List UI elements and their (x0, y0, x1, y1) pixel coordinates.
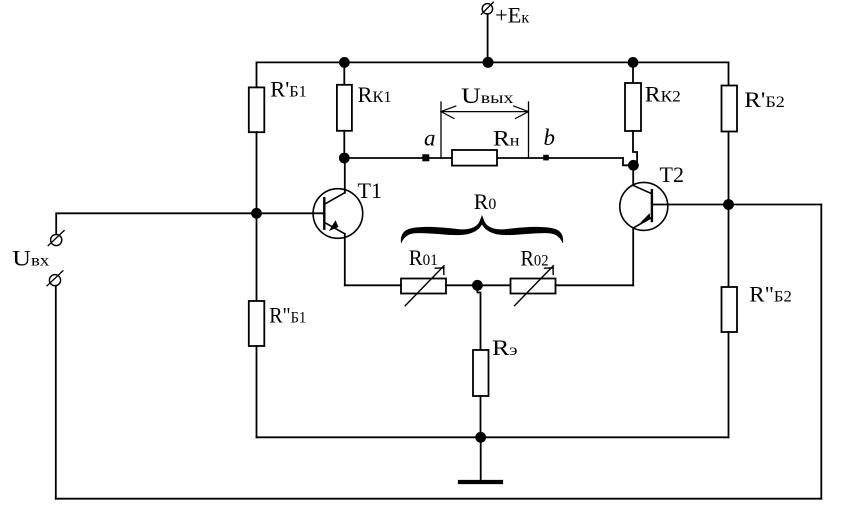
wire RK1 column top (343, 62, 345, 84)
label RE (492, 335, 518, 360)
svg-text:a: a (424, 126, 436, 151)
wire T1 collector (344, 158, 346, 193)
wire T2 emitter down (632, 228, 634, 285)
transistor T2 (620, 182, 668, 230)
label RK2 (645, 82, 681, 107)
label RN (493, 125, 520, 150)
terminal Uvx upper (48, 231, 64, 246)
node RK2 top (628, 57, 639, 68)
wire T1 base (257, 212, 325, 214)
resistor R'B2 (722, 86, 738, 132)
wire R01 to R02 (446, 284, 511, 286)
node T2 collector (628, 160, 639, 171)
wire R'B2 to base node (728, 132, 730, 205)
arrow Uvyh (441, 106, 529, 119)
resistor R'B1 (249, 87, 264, 132)
arrow R02 (515, 266, 554, 306)
wire top rail (257, 61, 729, 63)
brace R0 (401, 215, 563, 244)
node emitter center (472, 280, 483, 291)
terminal Uvx lower (47, 271, 63, 286)
wire to ground (480, 437, 482, 480)
wire T1 emitter down (344, 234, 346, 285)
arrow R01 (405, 266, 444, 306)
label a (424, 126, 436, 151)
wire upper terminal to base line (56, 213, 256, 234)
resistor RN (452, 150, 497, 166)
wire left column upper (256, 62, 258, 87)
terminal +Ek (481, 2, 493, 14)
ground (460, 480, 501, 484)
resistor RK1 (337, 85, 352, 131)
node RK1 bottom (339, 153, 350, 164)
label R0 (474, 189, 497, 214)
label T2 (660, 162, 684, 187)
svg-text:T2: T2 (660, 162, 684, 187)
node a tick (422, 154, 429, 161)
label R''B2 (749, 282, 792, 307)
wire bottom return (56, 498, 822, 500)
label Uvyh (461, 83, 514, 108)
wire bottom rail (257, 436, 729, 438)
wire left column middle (256, 132, 258, 301)
wire base node to right edge (729, 204, 822, 206)
wire load line right (623, 158, 629, 165)
node b tick (543, 155, 549, 161)
label Uvx (12, 245, 49, 270)
resistor RK2 (625, 83, 641, 131)
wire R''B2 column upper (728, 205, 730, 288)
node T1 base (251, 208, 262, 219)
resistor R01 (401, 279, 446, 294)
resistor R02 (511, 279, 556, 294)
wire RE to bottom rail (480, 396, 482, 437)
transistor T1 (313, 189, 363, 239)
label R02 (521, 245, 549, 270)
label +Ek (495, 3, 529, 28)
wire RK2 column top (632, 62, 634, 83)
wire Ek terminal to top rail (487, 14, 489, 62)
wire emitter rail left (345, 284, 401, 286)
wire RK1 to node (343, 131, 345, 158)
wire T2 base (652, 204, 729, 206)
label R''B1 (269, 303, 306, 328)
wire RK2 to node with jog (633, 131, 637, 165)
node ground (475, 432, 486, 443)
wire center node to RE with jog (477, 285, 480, 350)
wire R''B2 column lower (728, 332, 730, 437)
label R01 (409, 245, 438, 270)
label RK1 (358, 82, 392, 107)
wire R02 to T2 emitter (556, 284, 634, 286)
node RK1 top (339, 57, 350, 68)
bracket a (440, 102, 442, 158)
resistor RE (473, 350, 489, 396)
label T1 (358, 178, 382, 203)
wire T2 collector (632, 165, 634, 185)
svg-text:T1: T1 (358, 178, 382, 203)
wire right edge down (820, 205, 822, 499)
label R'B1 (270, 77, 307, 102)
wire lower terminal down (55, 286, 57, 499)
node T2 base (723, 199, 734, 210)
svg-text:b: b (544, 125, 556, 150)
label R'B2 (744, 87, 785, 112)
bracket b (528, 102, 530, 158)
node Ek / top rail (483, 57, 494, 68)
wire load line left (344, 157, 623, 159)
wire left column lower (256, 346, 258, 437)
resistor R''B1 (249, 301, 264, 346)
label b (544, 125, 556, 150)
wire R'B2 column top (728, 62, 730, 85)
resistor R''B2 (722, 287, 738, 332)
